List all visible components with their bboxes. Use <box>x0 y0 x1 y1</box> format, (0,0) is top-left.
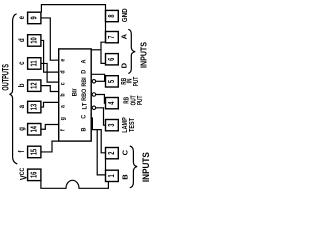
wire pin14 to segment g <box>41 125 59 130</box>
wire pin12 to segment b <box>41 86 59 92</box>
circuit pinout diagram of 7447 BCD-to-7-segment decoder (rotated 90 CCW) <box>0 0 150 195</box>
wire input A joining vertical <box>91 49 101 51</box>
svg-text:D: D <box>120 62 129 68</box>
wire input B to pin1 <box>97 130 105 175</box>
svg-text:BI/: BI/ <box>71 88 78 96</box>
pin 5 box <box>106 76 119 87</box>
bubble RBI <box>92 80 96 84</box>
svg-text:INPUTS: INPUTS <box>139 42 148 68</box>
svg-text:B: B <box>120 174 129 180</box>
wire pin9 to segment e <box>41 18 59 60</box>
svg-text:5: 5 <box>107 80 116 83</box>
wire pin10 to segment d <box>41 40 59 72</box>
svg-text:12: 12 <box>30 82 39 88</box>
svg-text:RBO: RBO <box>81 89 89 101</box>
svg-text:g: g <box>19 127 27 131</box>
svg-text:6: 6 <box>107 58 116 61</box>
svg-text:16: 16 <box>30 172 39 178</box>
svg-text:9: 9 <box>30 16 39 19</box>
wire input C to pin2 <box>91 118 105 153</box>
wire connector pin2 box to pin1 box <box>105 159 107 170</box>
chip body U1 <box>59 49 91 141</box>
pin 2 box <box>106 148 119 159</box>
svg-text:B: B <box>81 127 87 132</box>
svg-text:13: 13 <box>30 104 39 110</box>
pin 11 box <box>28 58 41 69</box>
pin 14 box <box>28 124 41 136</box>
pin 8 box <box>106 10 119 21</box>
pin 10 box <box>28 35 41 47</box>
wire input D down to pin5 line <box>91 74 104 81</box>
svg-text:A: A <box>120 33 129 39</box>
svg-text:c: c <box>19 61 27 64</box>
pin 1 box <box>106 170 119 181</box>
pin 15 box <box>28 146 41 158</box>
svg-text:3: 3 <box>107 124 116 127</box>
svg-text:b: b <box>19 83 27 87</box>
wire RBI bubble to pin5 <box>96 80 106 82</box>
svg-text:c: c <box>60 82 67 86</box>
wire pin15 to segment f joining chip bottom <box>41 141 59 152</box>
svg-text:RBI: RBI <box>81 77 89 87</box>
svg-text:C: C <box>120 149 129 155</box>
pin 7 box <box>106 32 119 43</box>
svg-text:f: f <box>60 129 67 131</box>
pin 12 box <box>28 80 41 92</box>
svg-text:10: 10 <box>30 37 39 43</box>
pin 9 box <box>28 12 41 24</box>
svg-text:1: 1 <box>107 174 116 177</box>
bubble LT <box>92 106 96 110</box>
svg-text:2: 2 <box>107 152 116 155</box>
pin 13 box <box>28 101 41 113</box>
svg-text:e: e <box>19 16 27 19</box>
svg-text:INPUTS: INPUTS <box>141 152 150 182</box>
wire pin13 to segment a <box>41 102 59 107</box>
wire Vcc bottom run with hop to pin1 <box>41 180 109 188</box>
svg-text:a: a <box>60 104 67 108</box>
svg-text:PUT: PUT <box>136 95 144 105</box>
svg-text:A: A <box>81 59 87 64</box>
bubble BI/RBO <box>92 93 96 97</box>
svg-text:11: 11 <box>30 60 39 66</box>
svg-text:TEST: TEST <box>128 118 136 132</box>
svg-text:b: b <box>60 93 67 97</box>
svg-text:g: g <box>60 117 67 121</box>
svg-text:d: d <box>19 38 27 42</box>
svg-text:a: a <box>19 105 27 108</box>
svg-text:f: f <box>19 150 27 153</box>
svg-text:d: d <box>60 70 67 74</box>
wire pin11 to segment c <box>41 63 59 82</box>
svg-text:PUT: PUT <box>132 77 140 87</box>
pin 16 box <box>28 169 41 181</box>
svg-text:GND: GND <box>121 8 128 22</box>
svg-text:e: e <box>60 58 67 62</box>
pin 4 box <box>106 98 119 109</box>
wire BI/RBO bubble to pin4 <box>96 95 106 104</box>
svg-text:OUTPUTS: OUTPUTS <box>0 64 11 91</box>
brace INPUTS A,D <box>128 29 135 73</box>
svg-text:14: 14 <box>30 126 39 132</box>
brace OUTPUTS pins 9-15 <box>10 14 18 164</box>
svg-text:8: 8 <box>107 14 116 17</box>
svg-text:C: C <box>81 114 87 119</box>
svg-text:D: D <box>81 69 87 74</box>
svg-text:7: 7 <box>107 36 116 39</box>
pin 6 box <box>106 54 119 65</box>
wire LT bubble to pin3 <box>96 108 106 125</box>
wire top loop from pin9 box around to input A branch <box>41 5 105 64</box>
brace INPUTS C,B <box>130 146 137 188</box>
pin 3 box <box>106 120 119 131</box>
svg-text:LT: LT <box>81 102 88 109</box>
svg-text:15: 15 <box>30 149 39 155</box>
svg-text:VCC: VCC <box>17 167 28 180</box>
svg-text:4: 4 <box>107 102 116 105</box>
